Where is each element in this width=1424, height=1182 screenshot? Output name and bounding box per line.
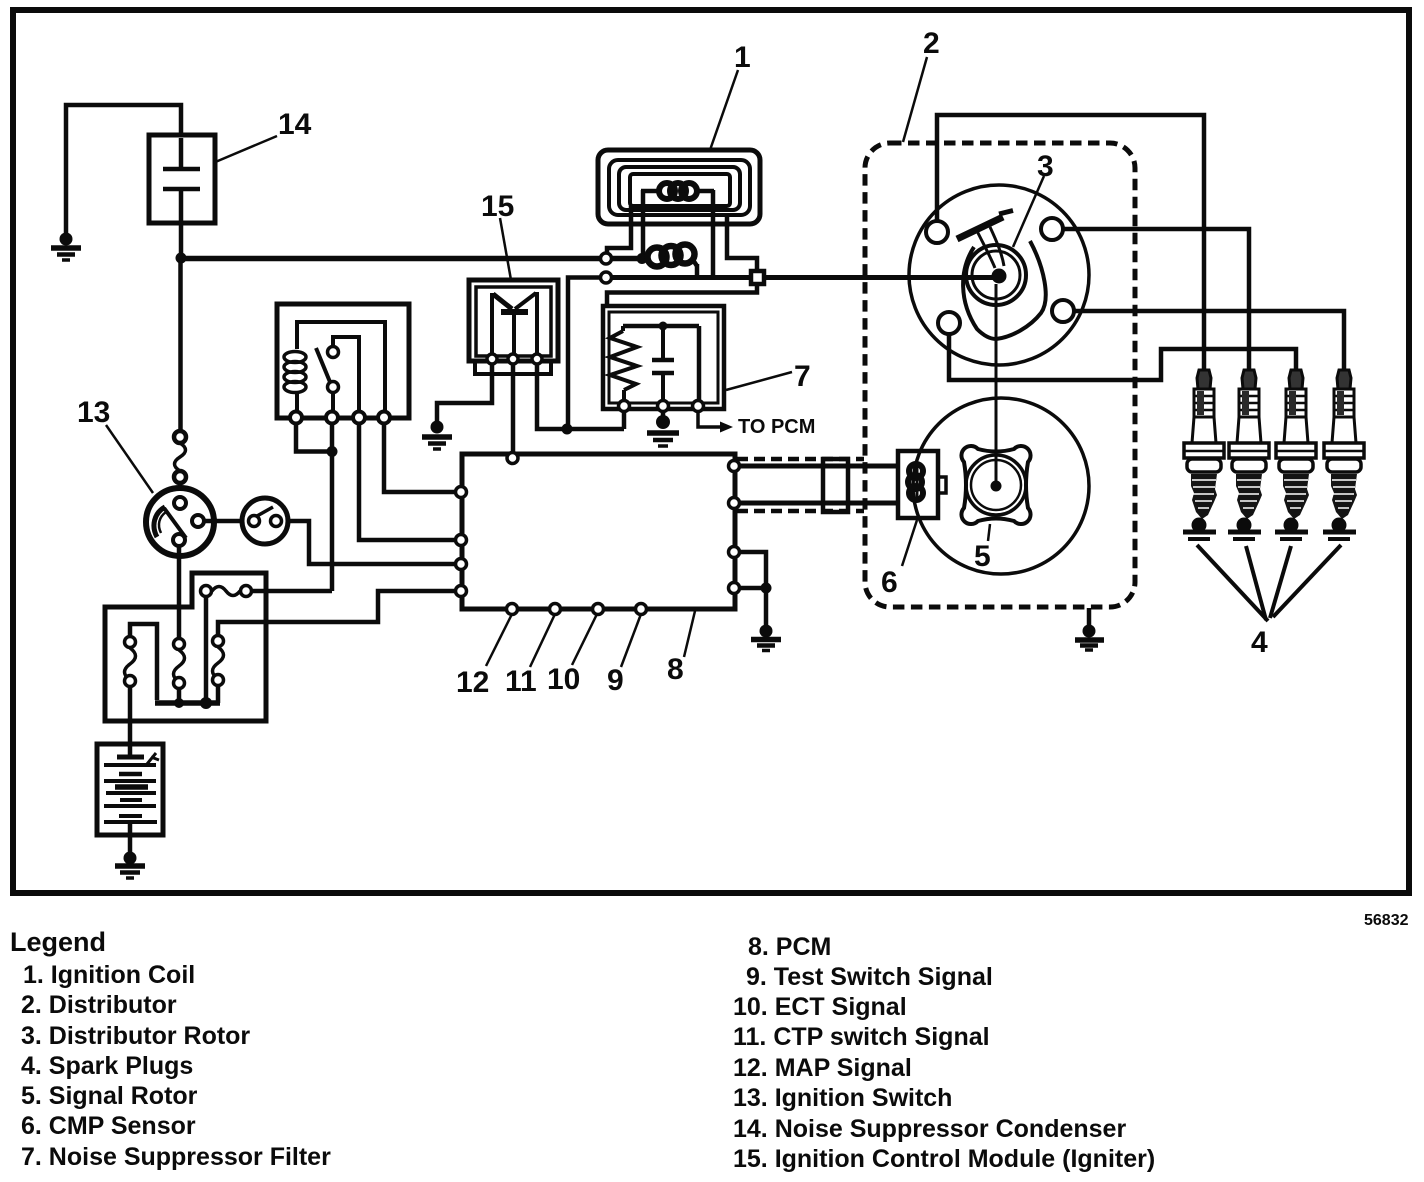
igniter pin 2 [508, 354, 518, 364]
wire: contact1 to spark plug 1 [937, 115, 1204, 369]
wire: coil core left lead to terminal 1 [607, 206, 631, 253]
fuse box (junction block) outline [105, 573, 266, 721]
label 11 leader [530, 614, 555, 667]
junction node (332,452) [327, 446, 338, 457]
svg-text:13. Ignition Switch: 13. Ignition Switch [733, 1084, 952, 1112]
igniter pin 1 [487, 354, 497, 364]
PCM bottom terminal 10 [593, 604, 604, 615]
svg-text:4: 4 [1251, 626, 1268, 659]
wire: coil shell right lead to junction pad [727, 215, 757, 271]
wire: PCM right lower terminal to junction [739, 586, 766, 591]
coil element middle (x=179) [174, 639, 185, 689]
ground (igniter) [422, 421, 452, 450]
bottom rail in fuse box [155, 700, 220, 706]
wire: coil terminal 2 row y=277 [612, 275, 751, 280]
wire: HT pad down to filter feed [607, 283, 757, 306]
rotor hub inner ring [972, 251, 1020, 299]
label 3 leader [1013, 176, 1044, 247]
svg-text:13: 13 [77, 396, 110, 429]
label 1 leader [710, 70, 738, 150]
label 12 leader [486, 614, 512, 666]
ground (distributor) [1075, 625, 1104, 651]
ignition coil assembly: outer case [598, 150, 760, 224]
wire: switch 13 bottom to fuse box middle coil [177, 546, 182, 638]
wire: HT pad to distributor rotor center [763, 275, 996, 280]
svg-text:11: 11 [505, 665, 537, 698]
wire: igniter pin1 to ground [437, 364, 492, 421]
CMP sensor box [898, 451, 946, 518]
wire: igniter pin3 to filter row y=429 [537, 364, 624, 429]
wire: contact2 to spark plug 2 [1063, 229, 1249, 369]
label 10 leader [572, 614, 597, 665]
svg-text:12. MAP Signal: 12. MAP Signal [733, 1054, 912, 1082]
junction node rail x=206 [200, 697, 212, 709]
ignition coil primary winding [641, 183, 714, 199]
connector block [823, 459, 848, 512]
coil element right (x=218) [213, 636, 224, 686]
relay pin 1 [290, 412, 302, 424]
igniter module 15 box [469, 280, 558, 361]
svg-text:12: 12 [456, 666, 489, 699]
relay pin 4 [378, 412, 390, 424]
wire: switch 13 to switch SW2 [204, 519, 243, 524]
coil terminal 1 [601, 253, 612, 264]
wire: battery to ground [128, 835, 133, 853]
wire: junction down to switch 13 [178, 258, 183, 431]
fusible link element top [201, 586, 252, 597]
PCM left terminal y=591 [456, 586, 467, 597]
wire: condenser bottom down to ignition switch connector [179, 223, 184, 258]
svg-text:10: 10 [547, 663, 580, 696]
noise suppressor filter box [603, 306, 724, 409]
svg-text:3: 3 [1037, 150, 1054, 183]
distributor contact 4 [938, 312, 960, 334]
svg-text:8: 8 [667, 653, 684, 686]
wire: relay pin4 to PCM left terminal y=492 [384, 423, 456, 492]
dashed connector boundary top [737, 457, 864, 462]
label 8 leader [684, 611, 695, 657]
wire: condenser top to left ground [66, 105, 181, 234]
wire: main horizontal feed y=258 to ignition coil [181, 256, 642, 262]
label 2 leader [903, 57, 927, 142]
svg-text:5: 5 [974, 540, 991, 573]
relay pin 3 [353, 412, 365, 424]
wire: CMP sensor pair bottom [739, 501, 898, 506]
svg-text:14: 14 [278, 108, 312, 141]
rotor pickup bar [957, 211, 1013, 269]
svg-text:1: 1 [734, 41, 751, 74]
diagram frame border [13, 10, 1409, 893]
wire: left coil bottom down to battery [128, 687, 133, 744]
svg-text:11. CTP switch Signal: 11. CTP switch Signal [733, 1023, 990, 1051]
test switch SW2 [242, 498, 288, 544]
igniter transistor symbol [492, 292, 537, 354]
filter pin 1 [619, 401, 630, 412]
wire: PCM right terminals to ground [739, 552, 766, 588]
ignition coil case shell 3 [619, 167, 740, 210]
ground (battery) [115, 852, 145, 879]
PCM top terminal [507, 453, 518, 464]
junction node (663,326) [659, 322, 668, 331]
PCM box [462, 454, 735, 609]
signal rotor ring inner [971, 460, 1021, 510]
junction node rail x=179 [174, 698, 184, 708]
svg-text:TO PCM: TO PCM [738, 416, 815, 438]
wire: SW2 to PCM left terminal y=564 [288, 521, 456, 564]
svg-text:10. ECT Signal: 10. ECT Signal [733, 993, 907, 1021]
signal rotor ring outer [966, 455, 1026, 515]
PCM left terminal y=564 [456, 559, 467, 570]
distributor dashed outline [865, 143, 1135, 607]
rotor arm teardrop body [963, 241, 1046, 339]
wire: relay pin1 jog to pin2 line [296, 423, 332, 452]
distributor contact 2 [1041, 218, 1063, 240]
filter top rail [623, 324, 699, 329]
wire: relay pin2 down to fusible link [330, 423, 335, 591]
label 13 leader [106, 425, 153, 493]
wire: right coil bottom to rail [216, 686, 221, 703]
svg-text:6: 6 [881, 566, 898, 599]
wire: igniter pin2 down to PCM top terminal [511, 364, 516, 453]
rotor hub center dot [992, 269, 1007, 284]
wire: coil primary right lead [711, 190, 716, 277]
ignition coil core [630, 174, 730, 206]
svg-text:2. Distributor: 2. Distributor [21, 991, 177, 1019]
distributor contact 1 [926, 221, 948, 243]
svg-text:56832: 56832 [1364, 912, 1409, 929]
ignition switch SW13 [146, 488, 214, 556]
svg-text:7. Noise Suppressor Filter: 7. Noise Suppressor Filter [21, 1143, 331, 1171]
wire: fusible link left lead down to rail [204, 597, 209, 700]
signal rotor cam [961, 446, 1030, 524]
dashed connector boundary bottom [737, 509, 864, 514]
svg-text:1. Ignition Coil: 1. Ignition Coil [23, 961, 195, 989]
svg-text:15. Ignition Control Module (I: 15. Ignition Control Module (Igniter) [733, 1145, 1155, 1173]
svg-text:3. Distributor Rotor: 3. Distributor Rotor [21, 1022, 250, 1050]
PCM bottom terminal 12 [507, 604, 518, 615]
svg-text:9. Test Switch Signal: 9. Test Switch Signal [746, 963, 993, 991]
svg-text:2: 2 [923, 27, 940, 60]
filter right branch [697, 326, 702, 401]
PCM right terminal y=503 [729, 498, 740, 509]
ground (PCM) [751, 625, 781, 651]
filter pin 2 [658, 401, 669, 412]
wire: middle coil bottom to rail [177, 689, 182, 703]
coil element left (x=130) [125, 637, 136, 687]
PCM left terminal y=492 [456, 487, 467, 498]
PCM bottom terminal 9 [636, 604, 647, 615]
relay pin 2 [326, 412, 338, 424]
wire: CMP sensor pair top [739, 464, 898, 469]
label 5 leader [988, 524, 990, 541]
ignition coil secondary winding on feed wire [648, 245, 698, 278]
label 14 leader [213, 136, 277, 163]
ground (filter) [647, 415, 679, 446]
junction node (569,429) [562, 424, 573, 435]
spark plug 3 [1275, 370, 1316, 539]
wire: rotor center shaft down to signal rotor [995, 284, 998, 482]
svg-text:4. Spark Plugs: 4. Spark Plugs [21, 1052, 193, 1080]
coil terminal 2 [601, 272, 612, 283]
wire: contact4 to spark plug 3 [949, 334, 1296, 380]
igniter pin 3 [532, 354, 542, 364]
wire: relay pin3 to PCM left terminal y=540 [359, 423, 456, 540]
igniter connector tray [475, 361, 551, 374]
wire: junction down to ground [764, 588, 769, 626]
label 6 leader [902, 520, 917, 566]
legend text block [10, 912, 1409, 1173]
wire: contact3 to spark plug 4 [1074, 311, 1344, 369]
svg-text:5. Signal Rotor: 5. Signal Rotor [21, 1082, 198, 1110]
wire: fusible link right to relay pins wire [252, 589, 332, 594]
distributor contact 3 [1052, 300, 1074, 322]
svg-text:7: 7 [794, 360, 811, 393]
label 15 leader [500, 218, 511, 280]
signal rotor center dot [991, 481, 1002, 492]
ground (left of condenser 14) [51, 233, 81, 261]
battery [97, 744, 163, 835]
distributor rotor cap circle [909, 185, 1089, 365]
filter pin 3 [693, 401, 704, 412]
spark plug 2 [1228, 370, 1269, 539]
PCM left terminal y=540 [456, 535, 467, 546]
wire: left coil top jog to rail [130, 624, 157, 700]
PCM bottom terminal 11 [550, 604, 561, 615]
signal rotor circle [913, 398, 1089, 574]
junction node (642,258) [637, 253, 648, 264]
svg-text:8. PCM: 8. PCM [748, 933, 831, 961]
svg-text:9: 9 [607, 664, 624, 697]
wire: distributor dashed box to ground [1087, 608, 1092, 626]
wire: coil primary left lead [641, 190, 646, 258]
wire: filter pin1 down to igniter row [622, 411, 627, 429]
wire: terminal2 left jog down to igniter row [568, 278, 600, 430]
rotor hub outer ring [966, 245, 1026, 305]
connector squiggle above ignition switch [174, 431, 186, 489]
main relay box [277, 304, 409, 418]
svg-text:14. Noise Suppressor Condenser: 14. Noise Suppressor Condenser [733, 1115, 1126, 1143]
svg-text:15: 15 [481, 190, 514, 223]
coil HT junction pad [751, 271, 764, 284]
wire: filter pin2 to ground [661, 411, 666, 416]
arrow TO PCM [720, 422, 733, 433]
svg-text:Legend: Legend [10, 927, 106, 957]
label 7 leader [726, 372, 792, 390]
filter resistor [610, 326, 637, 401]
wire: filter pin3 to PCM arrow [698, 411, 722, 427]
junction node at (181,258) [176, 253, 187, 264]
spark plug 1 [1183, 370, 1224, 539]
svg-text:6. CMP Sensor: 6. CMP Sensor [21, 1112, 196, 1140]
spark plug 4 [1323, 370, 1364, 539]
PCM right terminal y=588 [729, 583, 740, 594]
PCM right terminal y=466 [729, 461, 740, 472]
capacitor C14 noise suppressor condenser box [149, 135, 215, 223]
ignition coil case shell 2 [609, 160, 750, 215]
filter capacitor [652, 326, 674, 401]
label 9 leader [621, 614, 641, 667]
wire: right coil top exit to PCM left terminal y=591 [218, 591, 456, 635]
PCM right terminal y=552 [729, 547, 740, 558]
label 4 fan leader lines [1197, 545, 1341, 621]
junction node (766,588) [761, 583, 772, 594]
CMP sensor coil [908, 464, 923, 500]
